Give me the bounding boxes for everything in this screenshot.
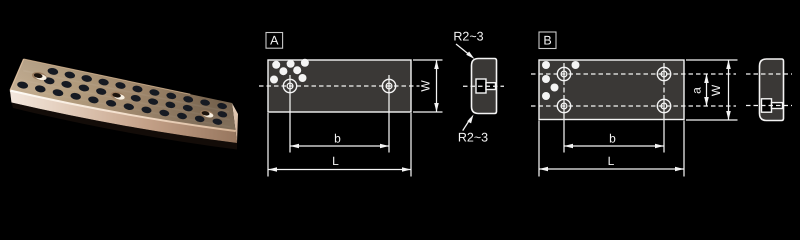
svg-text:b: b bbox=[334, 132, 341, 146]
svg-text:A: A bbox=[270, 34, 279, 48]
svg-text:b: b bbox=[609, 132, 616, 146]
svg-text:B: B bbox=[543, 34, 551, 48]
svg-text:L: L bbox=[332, 154, 339, 168]
svg-text:W: W bbox=[419, 80, 433, 92]
svg-text:a: a bbox=[690, 87, 704, 94]
svg-text:L: L bbox=[608, 154, 615, 168]
svg-text:R2~3: R2~3 bbox=[458, 131, 488, 145]
svg-text:R2~3: R2~3 bbox=[453, 30, 483, 44]
svg-text:W: W bbox=[709, 84, 723, 96]
